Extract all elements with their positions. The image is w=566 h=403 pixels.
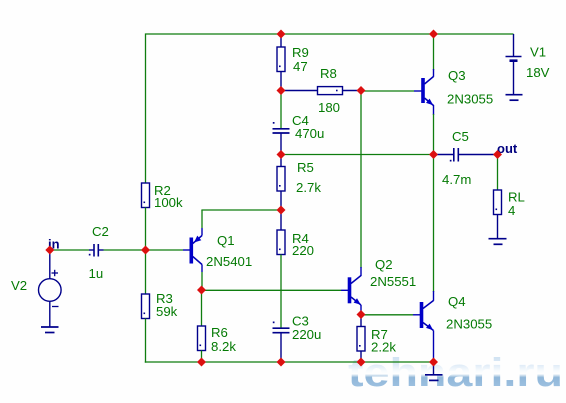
capacitor C3 220u — [273, 314, 322, 363]
wire x=361 R8 junction down to Q2 collector — [360, 91, 362, 269]
wire left rail lower — [145, 319, 147, 363]
transistor Q3 2N3055 — [361, 68, 493, 107]
resistor R6 8.2k — [198, 290, 237, 362]
wire in to C2 — [50, 249, 89, 251]
junction dot R9 bottom / R8 / C4 — [277, 86, 286, 95]
svg-text:2N3055: 2N3055 — [447, 92, 493, 107]
node in dot — [45, 246, 54, 255]
svg-text:tehnari.ru: tehnari.ru — [348, 351, 563, 395]
junction dot input node on left rail — [141, 246, 150, 255]
ground V1 — [506, 62, 523, 100]
wire Q3 collector up to top rail — [433, 34, 435, 70]
svg-text:2.2k: 2.2k — [371, 340, 396, 355]
svg-text:4: 4 — [508, 203, 515, 218]
capacitor C2 1u — [89, 224, 109, 281]
svg-text:2N5551: 2N5551 — [370, 274, 416, 289]
resistor R9 47 — [277, 34, 309, 91]
svg-text:220u: 220u — [292, 327, 321, 342]
voltage source V2 — [11, 250, 61, 307]
resistor R5 2.7k — [277, 155, 321, 211]
ground V2 — [41, 302, 59, 333]
wire y=314.5 Q2 emitter to Q4 base — [361, 314, 413, 316]
ground Q4 emitter — [425, 362, 443, 380]
svg-text:8.2k: 8.2k — [211, 339, 236, 354]
transistor Q1 2N5401 — [183, 228, 252, 272]
svg-text:2.7k: 2.7k — [296, 180, 321, 195]
resistor R4 220 — [277, 210, 314, 258]
svg-text:Q4: Q4 — [448, 294, 466, 309]
watermark tehnari.ru — [348, 351, 563, 395]
svg-text:2N5401: 2N5401 — [206, 254, 252, 269]
svg-text:2N3055: 2N3055 — [446, 317, 492, 332]
battery V1 18V — [506, 34, 550, 80]
svg-text:59k: 59k — [156, 304, 178, 319]
svg-text:100k: 100k — [154, 195, 183, 210]
node out label — [497, 141, 518, 156]
resistor R3 59k — [142, 291, 178, 319]
junction dot Q2 emitter / R7 / Q4 base — [357, 310, 366, 319]
svg-text:470u: 470u — [295, 126, 324, 141]
svg-text:Q1: Q1 — [217, 233, 235, 248]
junction dot Q1 collector / Q2 base — [197, 286, 206, 295]
wire Q1 emitter up — [201, 210, 203, 228]
wire y=154.5 to Q3 emitter column — [281, 154, 434, 156]
svg-text:V2: V2 — [11, 278, 27, 293]
svg-text:R9: R9 — [292, 45, 309, 60]
node out dot — [493, 150, 502, 159]
junction dot C4 bottom / R5 top / wire to C5 — [277, 150, 286, 159]
capacitor C5 4.7m — [434, 129, 498, 187]
wire left rail mid — [145, 208, 147, 295]
ground RL — [489, 215, 507, 245]
junction dot R8 right / Q3 base / Q2 collector — [357, 86, 366, 95]
svg-text:V1: V1 — [530, 45, 546, 60]
junction dot bottom C3 — [277, 358, 286, 367]
svg-text:C2: C2 — [92, 224, 109, 239]
wire y=210 Q1 emitter to R5/R4 node — [201, 209, 281, 211]
capacitor C4 470u — [273, 91, 325, 155]
wire top rail — [146, 34, 514, 183]
transistor Q4 2N3055 — [413, 294, 492, 362]
svg-text:C5: C5 — [452, 129, 469, 144]
resistor RL 4 — [494, 155, 525, 219]
junction dot bottom R6 — [197, 358, 206, 367]
wire C2 to rail junction to Q1 base — [104, 249, 184, 251]
junction dot bottom Q4 emitter / ground — [429, 358, 438, 367]
wire bottom rail — [145, 361, 434, 363]
svg-text:18V: 18V — [526, 65, 550, 80]
svg-text:220: 220 — [292, 243, 314, 258]
svg-text:47: 47 — [293, 59, 308, 74]
svg-text:Q3: Q3 — [448, 68, 466, 83]
wire Q4 collector up to C5 node — [433, 155, 435, 293]
wire R4 bottom down to C3 (crosses y=290 wire, no junction) — [280, 255, 282, 329]
junction dot bottom R7 — [357, 358, 366, 367]
wire Q3 emitter down to C5 node — [433, 105, 435, 115]
junction dot Q3 emitter / Q4 collector / C5 — [429, 150, 438, 159]
transistor Q2 2N5551 — [341, 257, 416, 315]
junction dot top rail / R9 — [277, 30, 286, 39]
resistor R7 2.2k — [357, 315, 396, 363]
svg-text:R6: R6 — [211, 325, 228, 340]
wire y=290 to Q2 base — [202, 289, 342, 291]
junction dot top rail / Q3 collector — [429, 30, 438, 39]
resistor R2 100k — [142, 183, 184, 210]
wire Q1 collector down — [201, 272, 203, 290]
svg-text:R8: R8 — [320, 66, 337, 81]
junction dot R5 bottom / R4 top / Q1 emitter wire — [277, 206, 286, 215]
resistor R8 180 — [281, 66, 361, 115]
svg-text:Q2: Q2 — [375, 257, 393, 272]
svg-text:1u: 1u — [89, 266, 104, 281]
svg-text:180: 180 — [318, 100, 340, 115]
svg-text:R5: R5 — [297, 160, 314, 175]
svg-text:4.7m: 4.7m — [442, 172, 471, 187]
node in label — [48, 237, 60, 252]
